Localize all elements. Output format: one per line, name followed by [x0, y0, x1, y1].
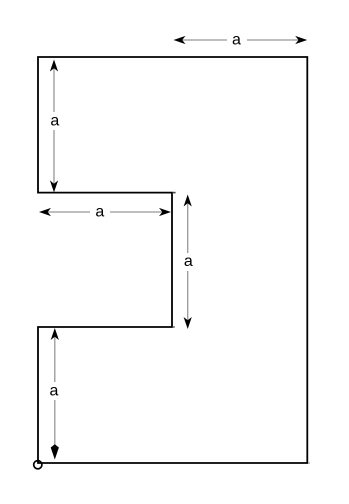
- svg-text:a: a: [95, 204, 104, 221]
- svg-text:a: a: [232, 32, 241, 49]
- svg-text:a: a: [50, 383, 59, 400]
- svg-text:a: a: [50, 113, 59, 130]
- notch corner overshoot ticks: [173, 192, 176, 194]
- svg-text:a: a: [184, 253, 193, 270]
- dimension arrow notch-right vertical (a): [184, 195, 193, 330]
- dimension arrow upper-left vertical (a): [50, 60, 59, 193]
- dimension arrow lower-left vertical (a): [50, 328, 59, 460]
- pivot circle at bottom-left corner: [34, 461, 42, 469]
- shape outline: 2a x 3a plate with square notch: [38, 57, 307, 463]
- dimension arrow notch horizontal (a): [39, 204, 171, 221]
- dimension arrow top (a): [174, 32, 308, 49]
